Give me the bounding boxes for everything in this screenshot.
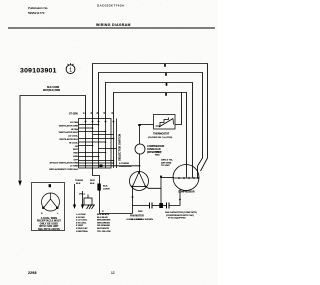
svg-text:WHT: WHT — [90, 180, 96, 182]
svg-text:LT GRN: LT GRN — [70, 166, 78, 168]
svg-text:BRN-BROWN: BRN-BROWN — [97, 220, 111, 222]
svg-text:GRN & YEL: GRN & YEL — [161, 160, 174, 162]
svg-text:WHT: WHT — [73, 149, 79, 151]
svg-text:WHT(BLK) BRN: WHT(BLK) BRN — [43, 90, 60, 92]
svg-text:5 HI COOL: 5 HI COOL — [76, 222, 87, 224]
svg-text:ALL WIRING SHOWN: ALL WIRING SHOWN — [131, 218, 153, 221]
svg-text:SEE NOTE ABOVE: SEE NOTE ABOVE — [38, 228, 60, 231]
svg-text:LO COOL: LO COOL — [68, 136, 79, 138]
svg-text:OVERLOAD: OVERLOAD — [119, 165, 132, 168]
svg-text:2 HI FAN: 2 HI FAN — [76, 216, 85, 219]
svg-text:BLK-BLACK: BLK-BLACK — [97, 213, 110, 216]
svg-text:ATTACH VENTILATOR GRN: ATTACH VENTILATOR GRN — [49, 162, 78, 165]
svg-text:L LO FAN: L LO FAN — [76, 213, 86, 216]
svg-text:(YEL): (YEL) — [79, 194, 85, 196]
svg-text:VENTILATOR GRN: VENTILATOR GRN — [59, 124, 79, 127]
svg-text:(COMPRESSOR MTR CAP): (COMPRESSOR MTR CAP) — [166, 214, 194, 217]
svg-text:A THERM: A THERM — [119, 162, 129, 165]
svg-text:BLK: BLK — [103, 186, 108, 188]
svg-text:FAN MOTOR: FAN MOTOR — [130, 215, 144, 218]
svg-text:GRN-GREEN: GRN-GREEN — [97, 222, 110, 224]
svg-text:OR-ORANGE: OR-ORANGE — [97, 224, 111, 227]
svg-text:VENTILATOR BLU: VENTILATOR BLU — [59, 138, 78, 141]
svg-text:THERMOSTAT: THERMOSTAT — [153, 133, 170, 136]
svg-text:WIRING DIAGRAM: WIRING DIAGRAM — [96, 23, 131, 27]
svg-text:WITH THIS UNIT: WITH THIS UNIT — [39, 226, 59, 228]
svg-text:OFF: OFF — [74, 159, 79, 161]
svg-text:Publication No.: Publication No. — [28, 6, 48, 10]
svg-text:HI COOL: HI COOL — [69, 142, 79, 144]
svg-text:TO UNIT: TO UNIT — [161, 165, 170, 167]
svg-text:N NEUTRAL: N NEUTRAL — [76, 230, 89, 233]
svg-text:ST GRN: ST GRN — [69, 114, 78, 116]
svg-text:RED: RED — [138, 211, 143, 213]
svg-text:WHT-WHITE: WHT-WHITE — [97, 228, 110, 230]
svg-text:2298: 2298 — [28, 271, 37, 275]
svg-text:BLK: BLK — [90, 183, 95, 185]
svg-text:ONLY BE USED: ONLY BE USED — [40, 223, 59, 225]
svg-text:THERM: THERM — [75, 180, 83, 182]
svg-text:12: 12 — [111, 271, 115, 275]
svg-text:5995211773: 5995211773 — [28, 11, 45, 15]
svg-text:6 VENT: 6 VENT — [76, 225, 84, 227]
svg-text:3 LO COOL: 3 LO COOL — [76, 220, 88, 222]
svg-text:RED: RED — [155, 154, 160, 156]
svg-text:IF SO EQUIPPED: IF SO EQUIPPED — [168, 218, 186, 220]
svg-text:1: 1 — [69, 67, 72, 73]
svg-text:BRN: BRN — [73, 156, 78, 158]
svg-text:DAC053K7740A: DAC053K7740A — [97, 4, 124, 8]
svg-text:YEL-YELLOW: YEL-YELLOW — [97, 231, 111, 233]
svg-text:LO FAN: LO FAN — [70, 121, 78, 124]
svg-text:OR: OR — [75, 146, 79, 148]
svg-text:HI FAN: HI FAN — [71, 128, 79, 131]
svg-text:(CLOSED ON 1 & 4 POS): (CLOSED ON 1 & 4 POS) — [148, 136, 173, 139]
svg-text:(OR GRN): (OR GRN) — [161, 162, 171, 164]
svg-text:HERM: HERM — [155, 152, 162, 154]
svg-text:R RUN CAP: R RUN CAP — [76, 227, 88, 230]
svg-text:SELECTOR SWITCH: SELECTOR SWITCH — [118, 134, 122, 161]
svg-text:FAN CAPACITOR (COMP MTR): FAN CAPACITOR (COMP MTR) — [165, 211, 197, 214]
svg-text:309103901: 309103901 — [20, 68, 57, 75]
svg-text:RED: RED — [73, 153, 78, 155]
svg-text:BLU-BLUE: BLU-BLUE — [97, 217, 108, 219]
svg-text:CONN: CONN — [103, 188, 110, 190]
svg-text:RECEPTACLE MUST: RECEPTACLE MUST — [37, 220, 62, 223]
svg-text:BLK CONN: BLK CONN — [47, 87, 59, 89]
svg-text:VENTILATOR WHT: VENTILATOR WHT — [59, 131, 79, 134]
svg-text:BLK: BLK — [76, 183, 81, 185]
svg-text:COMPRESSOR: COMPRESSOR — [178, 191, 195, 193]
svg-text:REPLACEMENT CORD BLK: REPLACEMENT CORD BLK — [49, 168, 78, 171]
svg-text:A DUAL WIRE: A DUAL WIRE — [41, 217, 58, 220]
